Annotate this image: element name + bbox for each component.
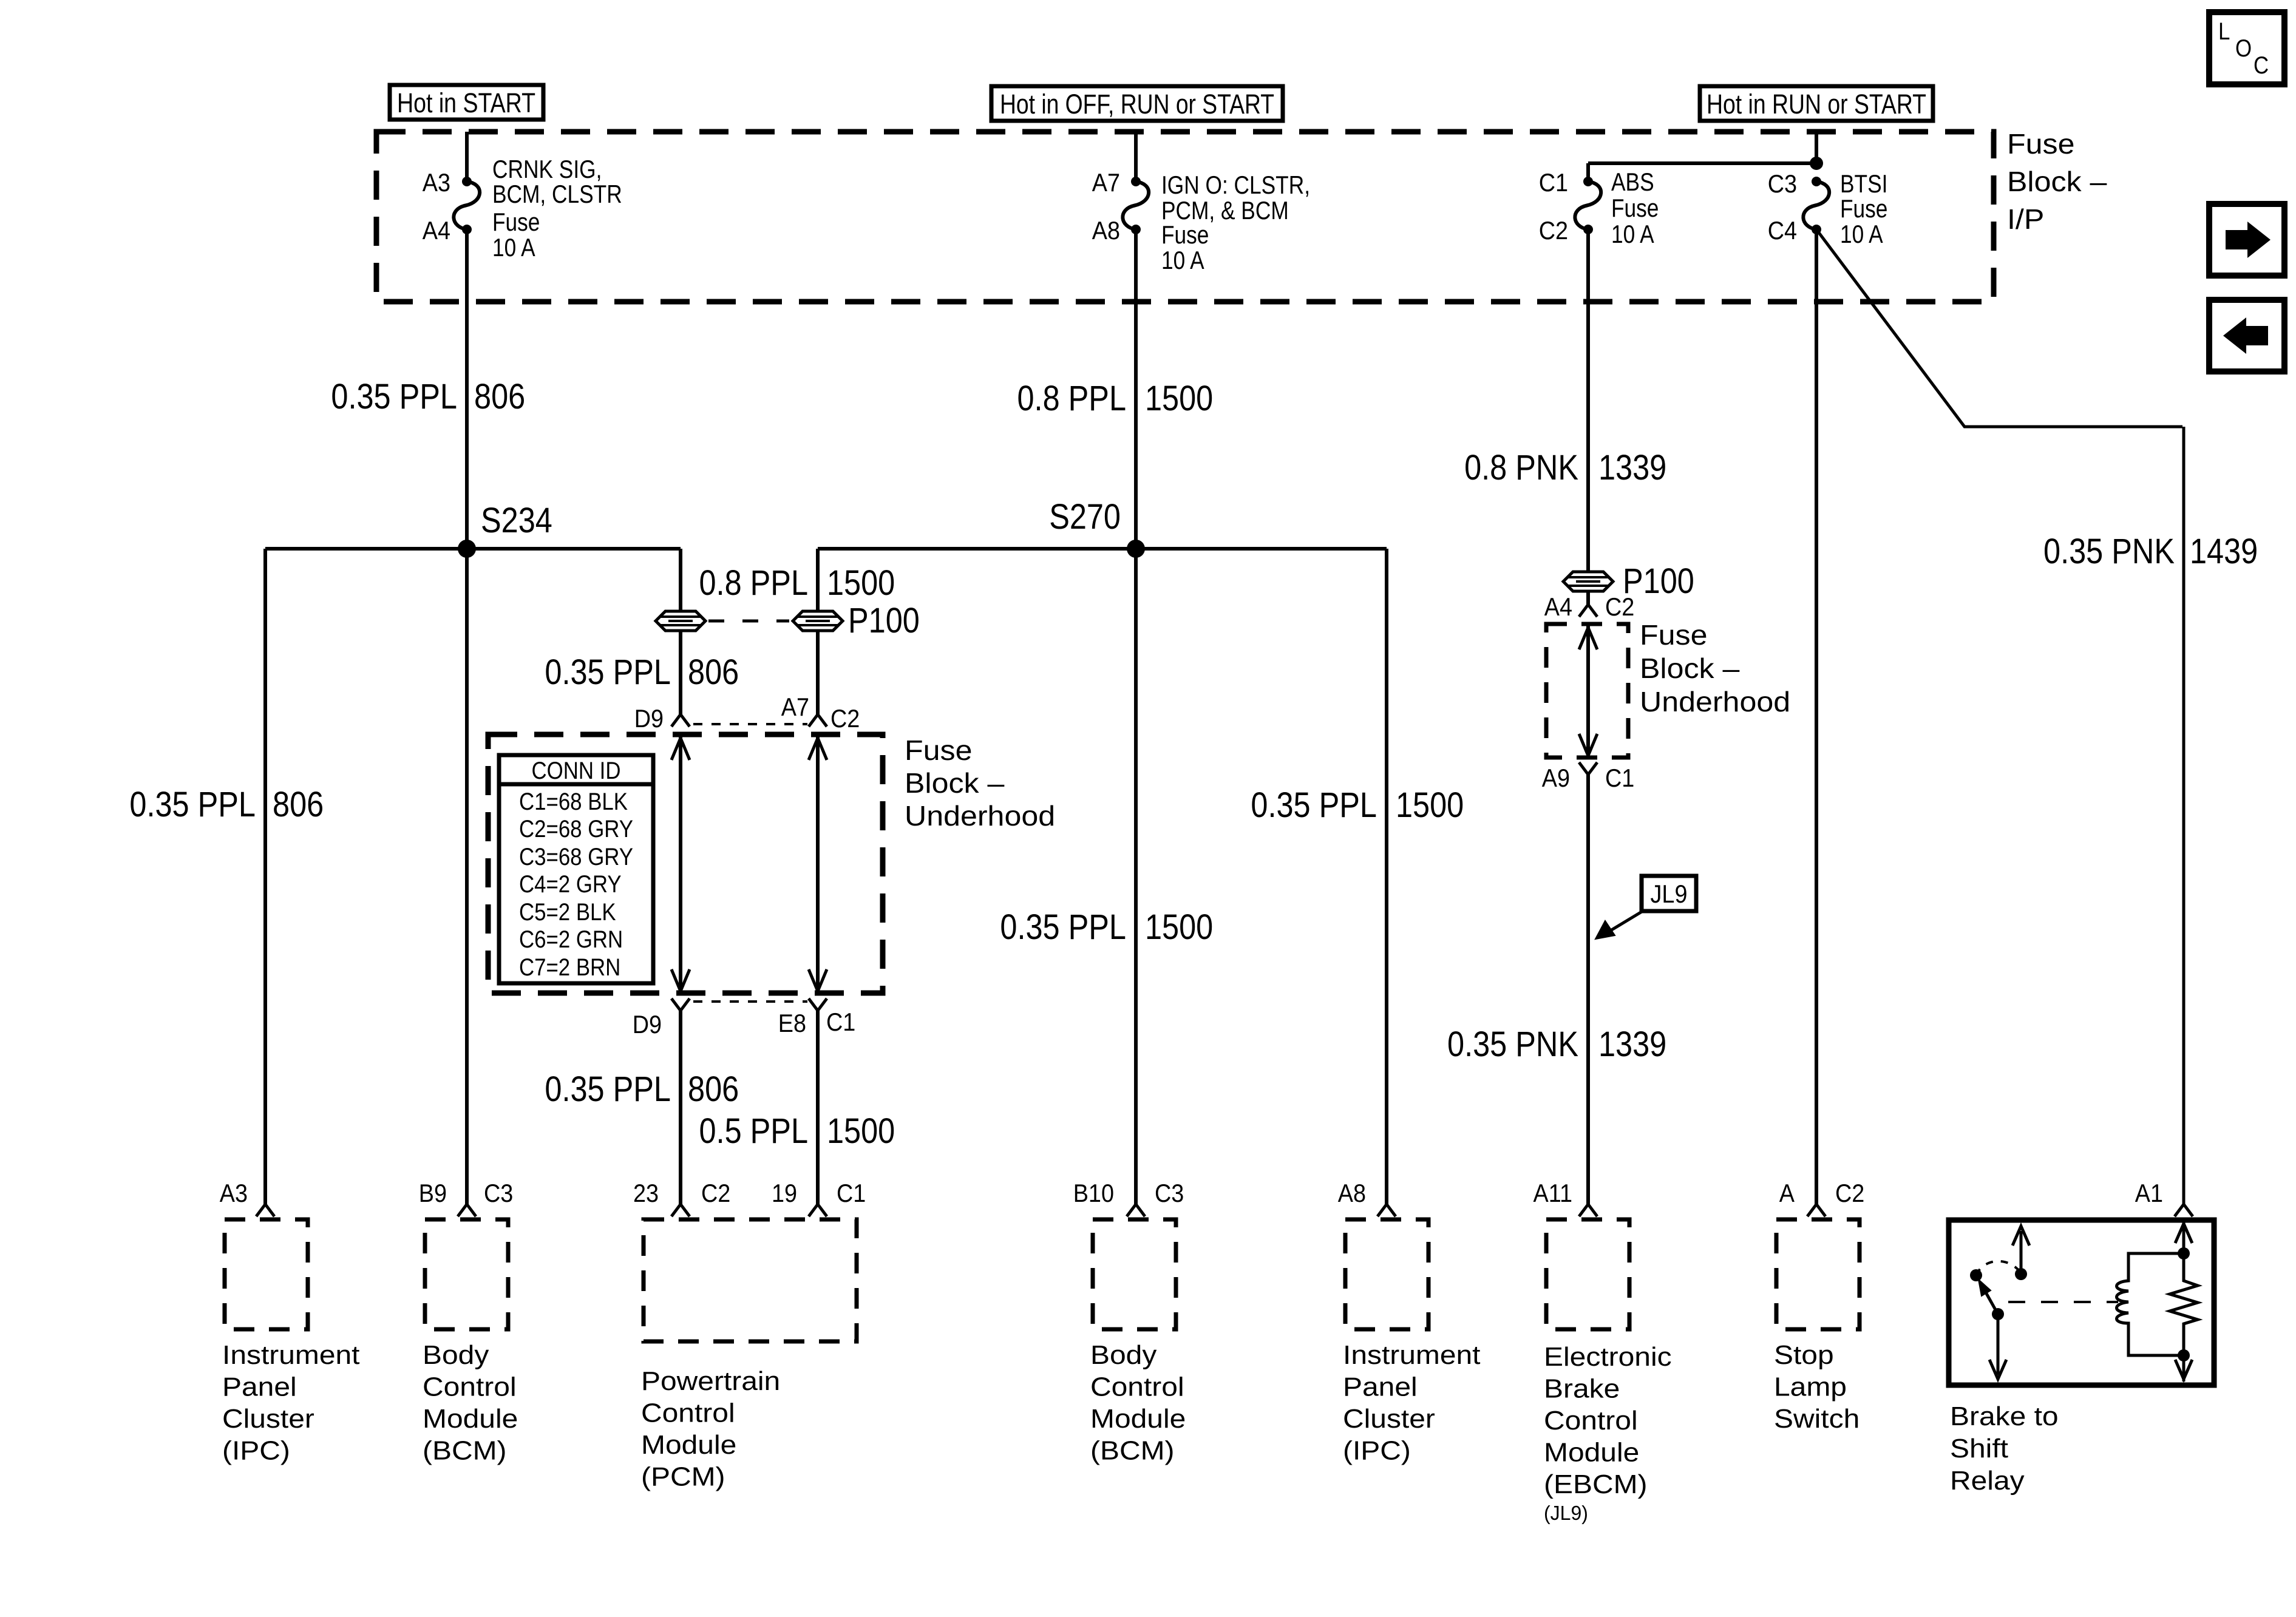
svg-text:Instrument: Instrument xyxy=(222,1340,360,1370)
svg-text:1439: 1439 xyxy=(2190,532,2258,571)
wire D9 through underhood box xyxy=(671,736,690,991)
svg-text:Underhood: Underhood xyxy=(1640,686,1790,717)
svg-text:0.35 PPL: 0.35 PPL xyxy=(331,377,457,416)
svg-text:A4: A4 xyxy=(1544,592,1572,621)
svg-text:A: A xyxy=(1779,1179,1795,1207)
label Fuse Block - Underhood small xyxy=(1640,619,1790,717)
svg-text:Fuse: Fuse xyxy=(1161,220,1209,249)
svg-text:O: O xyxy=(2235,35,2252,62)
svg-text:Module: Module xyxy=(641,1430,736,1460)
svg-text:A11: A11 xyxy=(1533,1179,1573,1207)
svg-text:Fuse: Fuse xyxy=(1611,194,1659,222)
wire C2-C1 through underhood box xyxy=(809,736,827,991)
svg-text:(IPC): (IPC) xyxy=(222,1436,290,1466)
inline connector P100 EBCM feed xyxy=(1563,561,1694,601)
label 0.5 PPL 1500 to PCM xyxy=(699,1111,895,1151)
Hot in RUN or START box xyxy=(1700,86,1933,121)
Hot in OFF RUN or START box xyxy=(991,86,1283,121)
svg-text:0.35 PPL: 0.35 PPL xyxy=(545,653,671,692)
svg-text:ABS: ABS xyxy=(1611,168,1654,196)
fuse ABS C1-C2 xyxy=(1539,168,1659,248)
svg-text:Relay: Relay xyxy=(1950,1466,2025,1496)
wire 0.35 PNK 1439 diagonal to relay xyxy=(1816,229,2193,1216)
svg-text:Fuse: Fuse xyxy=(905,734,973,766)
underhood fuse block small dashed outline xyxy=(1546,624,1628,758)
wire hot OFF/RUN/START to fuse A7 xyxy=(1134,132,1138,181)
wire hot START to fuse A3 xyxy=(465,132,469,181)
wire S234 right branch to P100 xyxy=(679,549,682,611)
svg-text:B10: B10 xyxy=(1073,1179,1114,1207)
svg-text:(BCM): (BCM) xyxy=(423,1436,507,1466)
fuse block underhood dashed outline xyxy=(488,734,883,993)
relay brake to shift box xyxy=(1949,1179,2214,1496)
svg-text:A7: A7 xyxy=(781,693,809,721)
svg-text:10 A: 10 A xyxy=(492,233,535,262)
svg-text:JL9: JL9 xyxy=(1651,880,1688,908)
svg-text:A8: A8 xyxy=(1338,1179,1366,1207)
connector dashes D9 row xyxy=(693,723,807,725)
wire S234 branch rail xyxy=(265,547,681,551)
svg-text:19: 19 xyxy=(772,1179,797,1207)
module body control module right xyxy=(1073,1179,1186,1466)
svg-text:Instrument: Instrument xyxy=(1343,1340,1481,1370)
relay coil xyxy=(2117,1253,2184,1355)
svg-text:Brake to: Brake to xyxy=(1950,1402,2059,1431)
svg-text:C2=68 GRY: C2=68 GRY xyxy=(519,816,633,842)
svg-text:Block –: Block – xyxy=(2007,166,2107,197)
label 0.35 PNK 1439 xyxy=(2043,532,2258,571)
wire S234 to BCM B9 xyxy=(458,549,476,1216)
svg-text:Module: Module xyxy=(1544,1438,1639,1468)
svg-text:Shift: Shift xyxy=(1950,1434,2008,1463)
svg-text:Hot in RUN or START: Hot in RUN or START xyxy=(1707,89,1926,120)
inline connector P100 right half xyxy=(793,601,920,640)
svg-text:C1: C1 xyxy=(826,1008,855,1036)
svg-text:10 A: 10 A xyxy=(1611,220,1654,248)
dashed link P100 xyxy=(708,620,789,623)
svg-text:Cluster: Cluster xyxy=(222,1404,314,1434)
svg-text:C2: C2 xyxy=(830,704,860,733)
svg-text:S234: S234 xyxy=(481,501,552,540)
svg-text:0.35 PPL: 0.35 PPL xyxy=(1000,907,1126,947)
terminal E8 C1 bottom xyxy=(778,998,856,1216)
svg-text:0.35 PNK: 0.35 PNK xyxy=(2043,532,2175,571)
svg-text:A7: A7 xyxy=(1092,168,1120,197)
svg-text:B9: B9 xyxy=(419,1179,447,1207)
svg-text:23: 23 xyxy=(633,1179,659,1207)
module instrument panel cluster left xyxy=(220,1179,360,1466)
wire P100 to A4/C2 terminal xyxy=(1544,591,1635,621)
svg-text:Lamp: Lamp xyxy=(1774,1372,1847,1402)
label 0.35 PPL 806 left xyxy=(129,785,324,824)
wire hot RUN/START down to junction xyxy=(1815,132,1818,163)
svg-text:10 A: 10 A xyxy=(1161,246,1204,274)
svg-text:L: L xyxy=(2218,18,2230,45)
wire 0.35 PPL 806 fuse A4 to S234 xyxy=(465,229,469,549)
fuse CRNK SIG A3-A4 xyxy=(423,155,622,262)
svg-text:(IPC): (IPC) xyxy=(1343,1436,1411,1466)
svg-text:A9: A9 xyxy=(1542,764,1570,792)
svg-text:Module: Module xyxy=(423,1404,518,1434)
svg-text:CONN ID: CONN ID xyxy=(532,758,621,784)
svg-text:(JL9): (JL9) xyxy=(1544,1502,1588,1524)
svg-text:0.35 PNK: 0.35 PNK xyxy=(1447,1025,1578,1064)
module instrument panel cluster right xyxy=(1338,1179,1481,1466)
svg-text:Electronic: Electronic xyxy=(1544,1342,1672,1372)
svg-text:Fuse: Fuse xyxy=(492,208,540,236)
svg-text:E8: E8 xyxy=(778,1009,806,1037)
svg-text:Body: Body xyxy=(1090,1340,1156,1370)
svg-text:C2: C2 xyxy=(1539,216,1568,245)
svg-text:C4=2 GRY: C4=2 GRY xyxy=(519,871,622,898)
label 0.35 PNK 1339 lower xyxy=(1447,1025,1666,1064)
module powertrain control module xyxy=(633,1179,866,1492)
svg-text:C1: C1 xyxy=(837,1179,866,1207)
svg-text:0.35 PPL: 0.35 PPL xyxy=(1251,785,1377,825)
label 0.35 PPL 1500 mid xyxy=(1000,907,1213,947)
module stop lamp switch xyxy=(1774,1179,1864,1434)
relay resistor xyxy=(2170,1253,2198,1355)
wire S270 right branch to IPC A8 xyxy=(1377,549,1396,1216)
relay A1 branch arrows xyxy=(2175,1220,2192,1381)
label 0.8 PPL 1500 branch xyxy=(699,563,895,603)
svg-text:Block –: Block – xyxy=(905,767,1005,799)
CONN ID table xyxy=(499,755,653,983)
relay contact feed arrow xyxy=(2012,1226,2029,1280)
svg-text:C1: C1 xyxy=(1539,168,1568,197)
wire P100 to D9 terminal xyxy=(634,631,690,733)
wire P100 to A7/C2 terminal xyxy=(781,631,860,733)
wire 0.8 PPL 1500 fuse A8 to S270 xyxy=(1134,229,1138,549)
node S234 splice xyxy=(458,501,552,558)
svg-text:806: 806 xyxy=(273,785,324,824)
svg-text:A4: A4 xyxy=(423,216,450,245)
svg-text:(EBCM): (EBCM) xyxy=(1544,1470,1648,1499)
fuse block I/P dashed outline xyxy=(376,132,1994,302)
LOC page icon xyxy=(2209,12,2284,84)
svg-text:S270: S270 xyxy=(1049,497,1121,537)
svg-text:C3: C3 xyxy=(484,1179,513,1207)
wire 0.8 PNK 1339 fuse C2 to P100 xyxy=(1586,229,1590,572)
svg-text:0.8 PPL: 0.8 PPL xyxy=(1017,379,1127,418)
inline connector P100 left half xyxy=(656,611,705,631)
fuse IGN 0 A7-A8 xyxy=(1092,168,1310,274)
terminal A9 C1 xyxy=(1542,762,1635,1216)
wire through small underhood box xyxy=(1579,626,1597,756)
svg-text:CRNK SIG,: CRNK SIG, xyxy=(492,155,602,183)
svg-text:Control: Control xyxy=(641,1398,735,1428)
module electronic brake control module xyxy=(1533,1179,1672,1524)
fuse BTSI C3-C4 xyxy=(1768,169,1888,248)
svg-text:Panel: Panel xyxy=(1343,1372,1418,1402)
svg-text:(PCM): (PCM) xyxy=(641,1462,725,1492)
connector dashes bottom row xyxy=(693,1000,807,1003)
svg-text:Control: Control xyxy=(1544,1406,1638,1436)
svg-text:BTSI: BTSI xyxy=(1840,169,1887,198)
relay switch xyxy=(1970,1261,2020,1379)
svg-text:C5=2 BLK: C5=2 BLK xyxy=(519,899,616,926)
Hot in START box xyxy=(390,85,543,120)
node S270 splice xyxy=(1049,497,1145,558)
svg-text:10 A: 10 A xyxy=(1840,220,1883,248)
label 0.35 PPL 806 upper xyxy=(331,377,525,416)
svg-text:A3: A3 xyxy=(220,1179,248,1207)
svg-text:C3: C3 xyxy=(1155,1179,1184,1207)
wire junction to ABS fuse C1 xyxy=(1588,163,1816,181)
svg-text:C: C xyxy=(2254,52,2269,79)
svg-text:Stop: Stop xyxy=(1774,1340,1834,1370)
svg-text:Cluster: Cluster xyxy=(1343,1404,1435,1434)
terminal D9 bottom xyxy=(633,998,690,1216)
svg-text:Fuse: Fuse xyxy=(2007,128,2075,160)
svg-text:A8: A8 xyxy=(1092,216,1120,245)
svg-text:0.35 PPL: 0.35 PPL xyxy=(129,785,256,824)
label 0.8 PNK 1339 xyxy=(1464,448,1666,487)
svg-text:1339: 1339 xyxy=(1598,1025,1666,1064)
svg-text:C1: C1 xyxy=(1605,764,1634,792)
label 0.35 PPL 806 to PCM xyxy=(545,1070,739,1109)
svg-text:C4: C4 xyxy=(1768,216,1797,245)
svg-text:C3=68 GRY: C3=68 GRY xyxy=(519,844,633,870)
svg-text:C6=2 GRN: C6=2 GRN xyxy=(519,926,623,953)
svg-text:BCM, CLSTR: BCM, CLSTR xyxy=(492,180,622,208)
right arrow page icon xyxy=(2209,204,2284,276)
svg-text:1500: 1500 xyxy=(1145,907,1213,947)
label Fuse Block - Underhood xyxy=(905,734,1055,832)
svg-text:C1=68 BLK: C1=68 BLK xyxy=(519,788,628,815)
wire S270 to BCM B10 xyxy=(1127,549,1145,1216)
svg-text:Body: Body xyxy=(423,1340,489,1370)
svg-text:806: 806 xyxy=(688,653,739,692)
left arrow page icon xyxy=(2209,300,2284,371)
svg-text:Fuse: Fuse xyxy=(1640,619,1708,651)
svg-text:Panel: Panel xyxy=(222,1372,297,1402)
svg-text:Control: Control xyxy=(423,1372,517,1402)
svg-text:Block –: Block – xyxy=(1640,653,1740,684)
svg-text:0.35 PPL: 0.35 PPL xyxy=(545,1070,671,1109)
wire S270 left branch to P100 xyxy=(816,549,820,611)
svg-text:C2: C2 xyxy=(701,1179,730,1207)
svg-text:Control: Control xyxy=(1090,1372,1184,1402)
svg-text:D9: D9 xyxy=(634,704,664,733)
svg-text:C2: C2 xyxy=(1605,592,1634,621)
svg-text:Powertrain: Powertrain xyxy=(641,1366,780,1396)
svg-text:1500: 1500 xyxy=(827,1111,895,1151)
module body control module left xyxy=(419,1179,518,1466)
svg-text:D9: D9 xyxy=(633,1010,662,1039)
svg-text:P100: P100 xyxy=(848,601,920,640)
svg-text:IGN O: CLSTR,: IGN O: CLSTR, xyxy=(1161,171,1310,199)
svg-text:Brake: Brake xyxy=(1544,1374,1620,1404)
svg-text:0.8 PNK: 0.8 PNK xyxy=(1464,448,1578,487)
svg-text:Hot in OFF, RUN or START: Hot in OFF, RUN or START xyxy=(1000,89,1274,120)
svg-text:0.5 PPL: 0.5 PPL xyxy=(699,1111,809,1151)
svg-text:1339: 1339 xyxy=(1598,448,1666,487)
label 0.8 PPL 1500 upper xyxy=(1017,379,1214,418)
svg-text:(BCM): (BCM) xyxy=(1090,1436,1175,1466)
label Fuse Block - I/P xyxy=(2007,128,2107,235)
svg-text:0.8 PPL: 0.8 PPL xyxy=(699,563,809,603)
svg-text:Fuse: Fuse xyxy=(1840,194,1887,223)
node junction C3 feed xyxy=(1810,157,1823,170)
svg-text:1500: 1500 xyxy=(1396,785,1464,825)
JL9 callout xyxy=(1595,876,1696,939)
svg-text:C7=2 BRN: C7=2 BRN xyxy=(519,954,620,981)
svg-text:Underhood: Underhood xyxy=(905,800,1055,832)
wire fuse C4 to stop lamp switch xyxy=(1807,229,1826,1216)
svg-text:I/P: I/P xyxy=(2007,203,2044,235)
svg-text:C2: C2 xyxy=(1835,1179,1864,1207)
svg-text:C3: C3 xyxy=(1768,169,1797,198)
relay dashed actuator link xyxy=(2008,1301,2118,1303)
svg-text:Hot in START: Hot in START xyxy=(397,87,535,118)
wire S234 left branch to IPC A3 xyxy=(256,549,274,1216)
svg-text:Module: Module xyxy=(1090,1404,1186,1434)
label 0.35 PPL 806 below P100 xyxy=(545,653,739,692)
svg-text:1500: 1500 xyxy=(827,563,895,603)
wire S270 branch rail xyxy=(818,547,1387,551)
svg-text:1500: 1500 xyxy=(1145,379,1213,418)
svg-text:806: 806 xyxy=(688,1070,739,1109)
svg-text:A1: A1 xyxy=(2135,1179,2163,1207)
svg-text:Switch: Switch xyxy=(1774,1404,1860,1434)
label 0.35 PPL 1500 right xyxy=(1251,785,1464,825)
svg-text:A3: A3 xyxy=(423,168,450,197)
svg-text:806: 806 xyxy=(474,377,525,416)
